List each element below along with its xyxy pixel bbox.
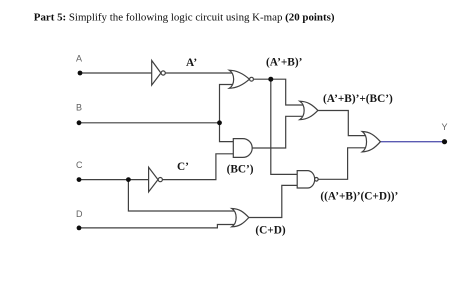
junction dot node B	[217, 120, 222, 125]
junction dot node C	[126, 177, 131, 182]
svg-text:A’: A’	[186, 57, 197, 69]
AND gate U2 (BC')	[233, 139, 252, 158]
svg-text:(BC’): (BC’)	[227, 164, 254, 176]
NAND gate U5 ((A'+B)'(C+D))'	[297, 171, 318, 188]
svg-text:Y: Y	[442, 122, 448, 132]
OR gate U6 output Y	[362, 132, 380, 152]
wire NAND1 output up to OR3 bottom input	[318, 148, 367, 180]
svg-text:C’: C’	[177, 161, 189, 173]
OR gate U4 (C+D)	[232, 209, 249, 227]
svg-text:(A’+B)’+(BC’): (A’+B)’+(BC’)	[323, 93, 393, 105]
terminal dot D	[77, 226, 82, 231]
wire B junction up to NOR1 bottom input	[220, 85, 235, 123]
wire OR3 output to Y (blue)	[380, 141, 444, 143]
wire B input to junction	[79, 122, 220, 124]
wire C' from NOT2 up to AND1 bottom input	[162, 154, 234, 180]
wire NOR1 output to node (A'+B)' and down to OR1 top input	[254, 79, 305, 105]
wire C input to NOT2	[79, 179, 149, 181]
NOR gate U1 (A'+B)'	[229, 70, 253, 88]
junction dot node (A'+B)'	[268, 77, 273, 82]
wire OR1 output down to OR3 top input	[318, 111, 367, 136]
wire B junction down to AND1 top input	[220, 123, 235, 142]
svg-text:(C+D): (C+D)	[255, 225, 286, 237]
svg-text:B: B	[76, 103, 82, 113]
terminal dot A	[78, 71, 83, 76]
wire D input to OR2 bottom input	[79, 225, 236, 228]
terminal dot C	[77, 177, 82, 182]
terminal dot Y	[442, 139, 447, 144]
svg-text:((A’+B)’(C+D))’: ((A’+B)’(C+D))’	[320, 191, 398, 203]
svg-text:A: A	[76, 54, 82, 64]
svg-text:(A’+B)’: (A’+B)’	[266, 57, 302, 69]
wire AND1 output up to OR1 bottom input	[252, 116, 305, 148]
wire OR2 output up to NAND1 bottom input	[249, 185, 298, 217]
OR gate U3 (A'+B)'+(BC')	[300, 101, 318, 119]
inverter NOT1 (A')	[152, 61, 166, 86]
wire A' from NOT1 to NOR1 top input	[165, 72, 234, 74]
svg-text:C: C	[76, 160, 83, 170]
inverter NOT2 (C')	[149, 167, 163, 192]
wire node (A'+B)' down to NAND1 top input	[271, 79, 298, 174]
terminal dot B	[77, 120, 82, 125]
svg-text:D: D	[76, 209, 83, 219]
wire A input to NOT1	[80, 72, 152, 74]
svg-text:Part 5: Simplify the following: Part 5: Simplify the following logic cir…	[34, 12, 335, 24]
wire C junction down to OR2 top input	[128, 180, 236, 211]
